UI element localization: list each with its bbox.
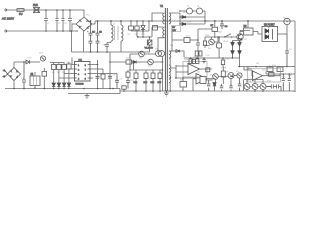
svg-text:C2: C2 [99, 32, 102, 34]
bridge rectifier VC2 aux [8, 68, 21, 81]
wire diode col to bus [239, 58, 241, 67]
svg-text:2: 2 [78, 70, 79, 72]
junction sense [109, 61, 111, 63]
capacitor C20 [288, 74, 291, 91]
fuse FU1 [17, 9, 24, 16]
wire sense link [110, 62, 134, 70]
wire fb mid [170, 65, 176, 78]
junction grow2 [262, 90, 264, 92]
resistor pair boxes [195, 51, 202, 56]
wire to mosfet [137, 31, 152, 37]
svg-text:C1: C1 [47, 23, 51, 25]
wire y58 bus [184, 57, 240, 59]
box U7 [200, 77, 206, 84]
junction U3 [247, 20, 249, 22]
snubber diode VD1 [141, 21, 145, 34]
capacitor C12 [108, 76, 112, 78]
transformer T1 core [160, 4, 167, 91]
junction dots extra [45, 9, 184, 79]
svg-text:RV1: RV1 [33, 3, 39, 7]
capacitor C22 [122, 86, 126, 91]
value labels scatter [21, 6, 293, 83]
transistor V5 [228, 73, 234, 79]
wire right edge drop [294, 21, 296, 92]
diode VD6 [52, 83, 55, 89]
wire KR down [214, 31, 216, 37]
capacitor CX1 [44, 10, 48, 31]
svg-text:6: 6 [85, 74, 86, 76]
op-amp U4 [176, 59, 212, 77]
junction gnd c [83, 88, 85, 90]
svg-text:8: 8 [85, 65, 86, 67]
capacitor CX2 [55, 10, 58, 31]
transformer primary winding lower [163, 27, 165, 38]
terminal N input [4, 30, 7, 33]
svg-text:T1: T1 [160, 4, 164, 8]
wire y78 right [266, 72, 295, 77]
varistor RV1 [33, 3, 40, 13]
inductor L1a winding [103, 21, 114, 52]
junction snubber [142, 30, 144, 32]
wire r row top [50, 62, 64, 64]
capacitor C7 [96, 76, 100, 78]
junction gnd a [97, 88, 99, 90]
diode VD7 [57, 83, 60, 89]
capacitor CX3 [61, 10, 64, 31]
switch SA1 [224, 34, 232, 38]
bridge rectifier VC1 [76, 17, 92, 31]
svg-text:R13: R13 [144, 82, 149, 84]
junction grow [254, 90, 256, 92]
resistor R12 [134, 70, 139, 91]
junction bus L1a [110, 20, 112, 22]
diode VD2 [180, 16, 205, 19]
resistor R9 [67, 62, 71, 83]
wire v row links [130, 54, 163, 91]
junction y57 e [232, 57, 234, 59]
svg-text:VC1: VC1 [86, 15, 91, 17]
wire aux plus [14, 62, 26, 68]
svg-text:UC3842: UC3842 [76, 84, 85, 86]
resistor R6 [52, 63, 56, 84]
capacitor C15 [207, 80, 210, 91]
wire U1 left pins [59, 58, 75, 79]
wire feedback top [130, 69, 163, 71]
IC U1 [75, 60, 91, 86]
junction sg [169, 90, 171, 92]
svg-text:C9: C9 [289, 49, 293, 51]
wire vcc corner [71, 31, 73, 52]
junction mosfet a [137, 36, 139, 38]
resistor R10 [101, 69, 105, 89]
svg-text:R12: R12 [134, 82, 139, 84]
junction x196b [197, 57, 199, 59]
capacitor C14 [202, 58, 205, 64]
resistor R29 [221, 67, 225, 85]
diode VD12 pair [231, 41, 234, 59]
svg-text:4: 4 [78, 79, 79, 81]
wire U1 pin6 [90, 73, 117, 75]
wire U1 pin5 [90, 77, 93, 79]
resistor R7 [57, 63, 61, 84]
svg-text:C9: C9 [119, 79, 123, 81]
transistor V3 [136, 59, 162, 65]
svg-text:R16: R16 [185, 60, 190, 62]
wire merge outputs [205, 11, 210, 24]
transistor V8 [209, 39, 215, 45]
svg-text:V3: V3 [148, 66, 151, 68]
junction mosfet b [142, 36, 144, 38]
svg-text:R15: R15 [158, 82, 163, 84]
junction KR [214, 36, 216, 38]
junction row gnd2 [123, 90, 167, 92]
svg-text:V2: V2 [139, 58, 142, 60]
transistor V7 [237, 34, 243, 40]
op-amp U8 [248, 68, 281, 82]
junction L3 [221, 20, 223, 22]
wire mid right bus [238, 66, 295, 68]
transistor V1 mosfet [145, 37, 154, 50]
resistor R30 [206, 68, 210, 72]
svg-text:VD12: VD12 [223, 41, 229, 43]
ground primary [85, 94, 90, 99]
capacitor C16 [220, 84, 223, 91]
wire opto right [278, 33, 288, 35]
inductor L3 [220, 21, 228, 29]
svg-text:VD14: VD14 [221, 68, 227, 70]
regulator box U3 [240, 26, 258, 35]
circle row VT3 [260, 84, 266, 90]
wire sense drop [72, 52, 111, 89]
svg-text:C14: C14 [206, 55, 211, 57]
wire sec low out [169, 72, 171, 91]
wire drain to primary [152, 27, 163, 37]
regulator KR box [211, 21, 218, 31]
resistor R21 [269, 73, 275, 77]
capacitor C11 [22, 61, 26, 88]
capacitor C19 [282, 74, 285, 91]
wire diode tops [233, 39, 241, 41]
svg-text:R14: R14 [151, 82, 156, 84]
junction mosfet source [149, 36, 151, 38]
inductor L2 toroid b [197, 8, 206, 14]
aux vertical x198 [198, 29, 212, 58]
capacitor C9 [285, 34, 289, 67]
junction rc [269, 66, 271, 68]
wire circle row [244, 80, 272, 92]
small box right A [267, 67, 273, 72]
diode VD13 pair [238, 41, 241, 59]
wire U1 pin8 [90, 60, 98, 89]
junction y78 [283, 73, 285, 75]
junction row gnd1 [13, 88, 114, 90]
svg-text:R7: R7 [57, 72, 61, 74]
wire u3 left drop [239, 28, 241, 32]
wire secondary top out [170, 13, 180, 24]
wire bridge minus down [83, 31, 85, 52]
svg-text:VD1: VD1 [141, 34, 146, 36]
relay box K1 [30, 72, 40, 89]
transformer secondary winding top [169, 13, 171, 24]
svg-text:U3: U3 [244, 39, 248, 41]
capacitor C18 [238, 78, 241, 91]
resistor R15 [158, 70, 163, 91]
wire opto left [258, 32, 262, 35]
resistor R22 [126, 60, 132, 64]
svg-text:C20: C20 [288, 75, 293, 77]
junction y57 d [222, 57, 224, 59]
svg-text:FU2: FU2 [28, 58, 33, 60]
resistor R17 [196, 58, 199, 63]
wire bridge left feed [72, 24, 78, 31]
optocoupler U2 [262, 25, 278, 42]
svg-text:AC 220V: AC 220V [2, 17, 14, 21]
svg-text:VD3: VD3 [187, 22, 192, 24]
resistor R14 [151, 70, 156, 91]
capacitor C1 bulk [87, 21, 103, 52]
junction y57 c [203, 57, 205, 59]
junction bus L1b [120, 20, 122, 22]
diode VD9 [67, 83, 70, 89]
wire U1 pin7 [90, 68, 103, 70]
resistor R20 [203, 37, 206, 48]
transformer label box [172, 26, 181, 32]
junction merge [204, 20, 206, 22]
wire primary lower return [158, 38, 164, 54]
svg-text:5: 5 [85, 79, 86, 81]
svg-text:L2: L2 [187, 6, 190, 8]
junction gnd b [109, 88, 111, 90]
box U5 [180, 78, 187, 91]
transistor V6 [237, 73, 242, 78]
svg-text:R6: R6 [52, 72, 56, 74]
diode VD5 circle [40, 56, 46, 61]
svg-text:U8: U8 [256, 63, 260, 65]
wire gnd bus left [5, 88, 120, 90]
wire main HV bus [95, 20, 295, 22]
box fb193 [172, 32, 199, 52]
transistor V2 [130, 51, 156, 57]
wire u7 stub [193, 79, 196, 91]
svg-text:L4: L4 [197, 6, 200, 8]
connector CN circles [156, 51, 165, 57]
wire primary top to bus [152, 13, 163, 21]
capacitor CX4 [68, 10, 72, 31]
diode VD15 [213, 83, 216, 91]
inductor L1b winding [118, 21, 123, 52]
resistor R13 [144, 70, 149, 91]
svg-text:3: 3 [78, 74, 79, 76]
resistor R8 [62, 63, 66, 84]
snubber capacitor C2 [135, 21, 139, 31]
svg-text:L1: L1 [113, 24, 116, 26]
wire gnd bus mid [120, 89, 170, 92]
wire L top [7, 9, 78, 11]
wire mid cluster [206, 76, 237, 87]
junction rb [255, 66, 257, 68]
wire snubber bottom [131, 21, 149, 31]
svg-text:R18: R18 [225, 59, 230, 61]
op-amp U6 [196, 74, 215, 85]
capacitor row C24 [277, 85, 281, 92]
resistor R5 [42, 68, 47, 85]
svg-text:R25: R25 [262, 70, 267, 72]
snubber resistor R2 [129, 21, 134, 31]
ground secondary [164, 91, 169, 96]
wire protection row [205, 36, 237, 38]
resistor R11 [126, 70, 130, 89]
wire aux bottom [13, 81, 15, 89]
junction y57 b [196, 57, 198, 59]
transistor V4 [213, 74, 219, 80]
transformer primary winding upper [163, 13, 165, 24]
resistor R28 [153, 26, 158, 31]
junction y78b [289, 73, 291, 75]
inductor L2 toroid a [180, 8, 197, 14]
wire mosfet source [110, 45, 150, 52]
junction y57 a [190, 57, 192, 59]
wire bridge plus out [92, 21, 95, 24]
junction sec top [179, 16, 181, 18]
wire gnd second [68, 91, 120, 94]
svg-text:C8: C8 [112, 75, 116, 77]
junction primary bus [151, 20, 153, 22]
resistor R16 [189, 58, 192, 63]
svg-text:W1: W1 [170, 45, 174, 47]
svg-text:V1 K790: V1 K790 [145, 48, 154, 50]
junction pin8 [97, 64, 99, 66]
diode VD10 [133, 61, 136, 64]
svg-text:VD5: VD5 [39, 53, 44, 55]
junction v8 [217, 36, 219, 38]
transformer secondary winding low [169, 65, 171, 72]
wire R5 bottom [43, 85, 45, 89]
wire N bottom [7, 30, 78, 32]
capacitor C17 [229, 84, 232, 91]
svg-text:U2 PC817: U2 PC817 [264, 25, 275, 27]
junction C5 [214, 20, 216, 22]
svg-text:R1: R1 [128, 34, 132, 36]
capacitor C13 [115, 74, 119, 89]
svg-text:C6: C6 [225, 26, 229, 28]
capacitor row C23 [266, 85, 276, 89]
svg-text:7: 7 [85, 70, 86, 72]
diode VD3 [180, 23, 205, 26]
svg-text:SA1: SA1 [218, 31, 223, 34]
svg-text:V8: V8 [208, 48, 211, 50]
circle row VT2 [252, 84, 258, 90]
wire U3 feed [247, 21, 249, 28]
wire indicator drop [286, 25, 288, 34]
wire y78 [175, 77, 200, 79]
junction mid right bus [286, 66, 288, 68]
diode VD4 [26, 60, 40, 64]
svg-text:C1: C1 [92, 32, 95, 34]
small box right B [277, 67, 283, 72]
connector XP1 [3, 69, 8, 78]
wire opamp2 fb [244, 70, 254, 76]
svg-text:C19: C19 [281, 76, 286, 78]
diode VD8 [62, 83, 65, 89]
svg-text:1: 1 [78, 65, 79, 67]
svg-text:FU: FU [19, 12, 23, 16]
junction v2 [129, 69, 131, 71]
capsule component mid [217, 36, 222, 58]
circle row VT1 [244, 84, 250, 90]
capacitor C21b bars [196, 43, 200, 45]
wire v7 links [240, 31, 250, 45]
svg-text:C2: C2 [58, 23, 62, 25]
diode VD11 [170, 50, 184, 57]
wire sec gnd bus [165, 91, 295, 92]
junction bus C1 [90, 20, 92, 22]
indicator HL circle [284, 18, 290, 24]
resistor R18 [221, 58, 224, 67]
transformer secondary winding fb [169, 76, 171, 83]
terminal L input [4, 9, 7, 12]
wire v8 links [205, 37, 218, 46]
svg-text:C3: C3 [64, 23, 68, 25]
svg-text:C7: C7 [100, 75, 104, 77]
wire u8 top [244, 67, 248, 71]
svg-text:U6: U6 [197, 72, 201, 74]
transformer secondary winding mid [169, 51, 171, 58]
wire sec mid joins [169, 58, 171, 65]
wire bridge top feed [78, 10, 84, 17]
